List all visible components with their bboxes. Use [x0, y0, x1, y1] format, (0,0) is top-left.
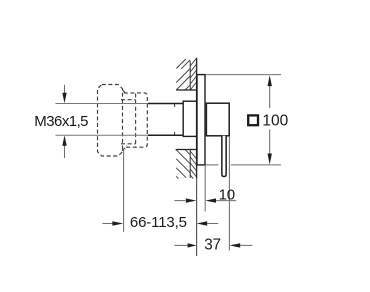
- dim 66-113,5 left arrow: [112, 221, 123, 225]
- dimension extension line plate top: [206, 74, 282, 76]
- adapter phantom outline: [124, 93, 148, 147]
- dim 66-113,5 line left tail: [102, 223, 112, 225]
- svg-text:37: 37: [204, 237, 221, 254]
- adapter inner step vertical: [135, 94, 137, 147]
- wall hatching top 45deg: [176, 59, 190, 90]
- dim 100 vertical line upper: [269, 86, 271, 109]
- wall surface line: [196, 58, 198, 179]
- knob chamfer dash top: [122, 90, 127, 95]
- svg-text:100: 100: [262, 113, 288, 130]
- adapter inner step bottom: [121, 143, 136, 145]
- dim 66-113,5 right arrow: [197, 221, 208, 225]
- dim 10 line left tail: [174, 200, 185, 202]
- dim M36 bottom arrow: [64, 145, 66, 158]
- spindle thread top edge: [148, 103, 184, 105]
- lever handle: [222, 136, 226, 177]
- wall hatching bottom 45deg: [176, 150, 190, 179]
- knob chamfer dash bottom: [122, 146, 127, 151]
- svg-text:M36x1,5: M36x1,5: [34, 113, 88, 130]
- thread end tick bottom: [174, 132, 176, 135]
- dim 10 right arrow: [205, 198, 216, 202]
- wall bottom section top edge: [176, 149, 198, 151]
- dim 100 vertical line lower: [269, 129, 271, 154]
- dim 37 line left tail: [175, 244, 188, 246]
- wall finish band inner line top: [189, 61, 191, 90]
- step flange at wall: [183, 101, 196, 136]
- valve hub: [206, 103, 229, 136]
- hub front extension line: [228, 136, 230, 251]
- dim 10 left arrow: [186, 198, 197, 202]
- svg-text:66-113,5: 66-113,5: [130, 214, 187, 231]
- dim 37 left arrow: [188, 243, 197, 247]
- dim M36 top arrow: [64, 85, 66, 94]
- thread end tick top: [174, 104, 176, 107]
- wall finish band inner line bottom: [189, 150, 191, 179]
- plate front extension line: [204, 165, 206, 212]
- label square symbol: [248, 115, 258, 125]
- spindle thread bottom edge: [148, 134, 184, 136]
- svg-text:10: 10: [219, 186, 235, 203]
- dimension extension line plate bottom right part: [231, 164, 281, 166]
- M36 extension line bottom: [56, 134, 149, 136]
- dim 100 down arrow: [268, 154, 272, 165]
- dim 66-113,5 right tail: [207, 223, 218, 225]
- escutcheon plate side view: [197, 75, 205, 165]
- dim 100 up arrow: [268, 75, 272, 86]
- dim 37 right tail: [240, 244, 252, 246]
- wall finish band hatching bottom: [190, 151, 196, 179]
- knob rear extension line: [123, 150, 125, 232]
- wall top section bottom edge: [176, 89, 197, 91]
- wall surface extension line lower: [196, 179, 198, 257]
- M36 extension line top: [56, 103, 149, 105]
- dim 10 right tail: [216, 200, 236, 202]
- wall finish band hatching top: [190, 58, 196, 90]
- dim 37 right arrow: [230, 243, 241, 247]
- adapter inner step top: [121, 99, 136, 101]
- dimension extension line plate bottom left part: [206, 164, 219, 166]
- handle knob phantom outline: [98, 85, 123, 157]
